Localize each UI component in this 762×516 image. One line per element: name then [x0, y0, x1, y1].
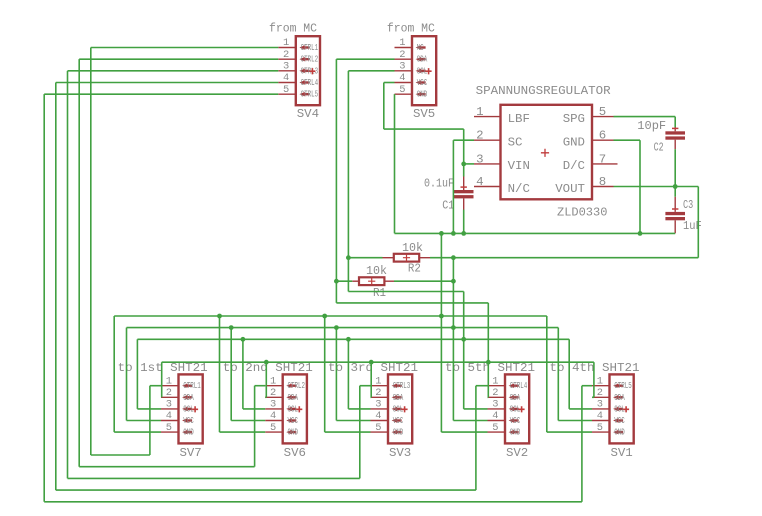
- svg-text:3: 3: [399, 61, 405, 73]
- wire CTRL5 bottom horizontal: [44, 501, 582, 503]
- svg-text:2: 2: [476, 129, 483, 143]
- svg-text:VCC: VCC: [510, 415, 521, 426]
- junction GND row drop: [439, 231, 444, 236]
- wire SCL drop to SV7: [136, 339, 138, 409]
- wire CTRL5 riser: [581, 386, 583, 502]
- wire VOUT drop: [452, 258, 454, 421]
- wire GND to SV6 pin 5: [220, 431, 266, 433]
- wire CTRL1 from SV4 pin 1: [91, 47, 278, 49]
- svg-text:GND: GND: [393, 427, 404, 438]
- svg-text:1: 1: [492, 375, 498, 387]
- svg-text:3: 3: [270, 399, 276, 411]
- connector SV6: [223, 361, 313, 460]
- svg-text:4: 4: [476, 175, 483, 189]
- junction VCC bus SV6: [229, 325, 234, 330]
- connector SV3: [328, 361, 418, 460]
- wire GND drop to SV6: [219, 316, 221, 432]
- junction VCC bus SV3: [334, 325, 339, 330]
- svg-text:GND: GND: [510, 427, 521, 438]
- svg-text:2: 2: [166, 387, 172, 399]
- wire SCL to SV6 pin 3: [243, 408, 265, 410]
- svg-text:2: 2: [597, 387, 603, 399]
- junction GND row pin 6: [638, 231, 643, 236]
- IC U1 ZLD0330 voltage regulator: [474, 84, 618, 220]
- svg-text:CTRL4: CTRL4: [510, 380, 528, 391]
- svg-text:CTRL2: CTRL2: [301, 54, 319, 65]
- wire VOUT row: [614, 186, 699, 188]
- connector SV4: [269, 22, 320, 121]
- wire GND row: [395, 232, 676, 234]
- wire R1 right to VOUT: [394, 280, 453, 282]
- svg-text:2: 2: [492, 387, 498, 399]
- svg-text:SDA: SDA: [393, 392, 404, 403]
- svg-text:SV1: SV1: [610, 446, 632, 460]
- wire SDA to SV1 pin 2: [592, 396, 594, 398]
- wire CTRL1 to pin 1: [150, 385, 161, 387]
- capacitor C1 0.1uF: [424, 177, 474, 213]
- wire SCL horizontal: [348, 291, 463, 293]
- wire CTRL3 from SV4 pin 3: [68, 70, 279, 72]
- wire CTRL5 left vertical: [43, 94, 45, 502]
- junction VOUT / C2 / C3: [673, 184, 678, 189]
- svg-text:5: 5: [597, 422, 603, 434]
- svg-text:2: 2: [270, 387, 276, 399]
- junction GND row C1: [461, 231, 466, 236]
- svg-text:CTRL1: CTRL1: [301, 42, 319, 53]
- svg-text:GND: GND: [288, 427, 299, 438]
- wire GND drop to SV3: [324, 316, 326, 432]
- junction GND row SC: [451, 231, 456, 236]
- wire C1 bottom to GND row: [463, 210, 465, 234]
- wire GND main drop: [440, 233, 442, 432]
- svg-text:CTRL4: CTRL4: [301, 77, 319, 88]
- svg-text:1: 1: [399, 37, 405, 49]
- wire CTRL5 from SV4 pin 5: [44, 93, 278, 95]
- svg-text:4: 4: [283, 72, 289, 84]
- wire SCL from SV5 pin 3: [348, 70, 394, 72]
- svg-text:GND: GND: [614, 427, 625, 438]
- svg-text:NC: NC: [417, 42, 424, 53]
- resistor R2 10k: [383, 241, 431, 276]
- svg-text:VCC: VCC: [183, 415, 194, 426]
- svg-text:SPANNUNGSREGULATOR: SPANNUNGSREGULATOR: [476, 84, 612, 98]
- wire SDA drop to SV1: [593, 362, 595, 397]
- svg-text:3: 3: [492, 399, 498, 411]
- junction SCL bus SV3: [346, 337, 351, 342]
- svg-text:VCC: VCC: [288, 415, 299, 426]
- wire CTRL2 from SV4 pin 2: [79, 58, 278, 60]
- connector SV2: [445, 361, 535, 460]
- wire CTRL2 riser: [254, 386, 256, 467]
- wire SDA drop to SV3: [370, 362, 372, 397]
- svg-text:1: 1: [375, 375, 381, 387]
- wire CTRL3 left vertical: [67, 71, 69, 479]
- svg-text:1: 1: [283, 37, 289, 49]
- svg-text:R2: R2: [408, 262, 421, 276]
- wire SCL vertical: [347, 71, 349, 292]
- wire SC vertical: [452, 140, 454, 233]
- wire SCL to SV7 pin 3: [137, 408, 161, 410]
- wire VOUT to C3 top: [674, 187, 676, 197]
- wire CTRL3 to pin 1: [360, 385, 371, 387]
- junction SCL bus feed: [461, 337, 466, 342]
- junction VCC bus feed: [451, 325, 456, 330]
- wire CTRL2 bottom horizontal: [79, 466, 254, 468]
- wire C2 bottom to VOUT row: [674, 149, 676, 186]
- wire SCL drop to SV1: [568, 339, 570, 409]
- svg-text:4: 4: [270, 410, 276, 422]
- svg-text:10k: 10k: [366, 264, 387, 278]
- capacitor C2 10pF: [637, 119, 685, 155]
- svg-text:5: 5: [399, 84, 405, 96]
- wire VCC from SV5 pin 4: [384, 82, 395, 84]
- capacitor C3 1uF: [665, 197, 701, 234]
- svg-text:VOUT: VOUT: [555, 182, 585, 196]
- svg-text:SPG: SPG: [563, 112, 585, 126]
- wire SPG pin 5 to C2: [614, 116, 676, 118]
- wire CTRL5 to pin 1: [582, 385, 592, 387]
- wire VCC horizontal: [384, 128, 464, 130]
- wire SCL drop to SV6: [242, 339, 244, 409]
- svg-text:SV3: SV3: [389, 446, 411, 460]
- svg-text:SC: SC: [508, 136, 523, 150]
- svg-text:5: 5: [599, 105, 606, 119]
- wire CTRL4 from SV4 pin 4: [56, 82, 278, 84]
- wire SCL drop to SV3: [347, 339, 349, 409]
- junction SDA bus SV3: [369, 360, 374, 365]
- svg-text:3: 3: [283, 61, 289, 73]
- wire CTRL2 left vertical: [78, 59, 80, 467]
- svg-text:4: 4: [399, 72, 405, 84]
- svg-text:1: 1: [166, 375, 172, 387]
- svg-text:4: 4: [597, 410, 603, 422]
- junction GND bus SV6: [217, 314, 222, 319]
- svg-text:CTRL2: CTRL2: [288, 380, 306, 391]
- svg-text:2: 2: [283, 49, 289, 61]
- wire SCL to R2 left: [348, 257, 382, 259]
- svg-text:SDA: SDA: [183, 392, 194, 403]
- wire GND from SV5 pin 5 vertical: [394, 94, 396, 233]
- svg-text:LBF: LBF: [508, 112, 530, 126]
- wire VCC to SV2 pin 4: [453, 420, 487, 422]
- wire VCC drop to SV7: [126, 328, 128, 421]
- wire VCC bus: [127, 327, 559, 329]
- svg-text:VCC: VCC: [393, 415, 404, 426]
- svg-text:SV2: SV2: [506, 446, 528, 460]
- svg-text:SV5: SV5: [413, 107, 435, 121]
- wire SDA drop to SV6: [265, 362, 267, 397]
- svg-text:7: 7: [599, 152, 606, 166]
- wire GND to SV3 pin 5: [325, 431, 371, 433]
- wire VCC down to VIN row: [463, 129, 465, 164]
- junction VOUT / R2: [451, 255, 456, 260]
- svg-text:2: 2: [375, 387, 381, 399]
- svg-text:from MC: from MC: [269, 22, 317, 36]
- wire SCL drop to bus: [463, 292, 465, 409]
- svg-text:SDA: SDA: [417, 54, 428, 65]
- junction SCL / R2: [346, 255, 351, 260]
- svg-text:3: 3: [476, 152, 483, 166]
- wire GND drop to SV1: [546, 316, 548, 432]
- svg-text:SDA: SDA: [510, 392, 521, 403]
- svg-text:1: 1: [597, 375, 603, 387]
- svg-text:4: 4: [375, 410, 381, 422]
- svg-text:10pF: 10pF: [637, 119, 666, 133]
- svg-text:GND: GND: [563, 136, 585, 150]
- svg-text:1: 1: [476, 105, 483, 119]
- svg-text:5: 5: [166, 422, 172, 434]
- svg-text:5: 5: [283, 84, 289, 96]
- svg-text:from MC: from MC: [387, 22, 435, 36]
- resistor R1 10k: [352, 264, 394, 300]
- svg-text:C2: C2: [654, 141, 664, 155]
- wire CTRL4 bottom horizontal: [56, 489, 476, 491]
- wire CTRL1 riser: [149, 386, 151, 455]
- svg-text:4: 4: [166, 410, 172, 422]
- wire VCC to SV7 pin 4: [127, 420, 162, 422]
- svg-text:0.1uF: 0.1uF: [424, 177, 454, 191]
- wire CTRL3 bottom horizontal: [68, 477, 360, 479]
- connector SV5: [387, 22, 436, 121]
- wire SDA to SV6 pin 2: [265, 396, 266, 398]
- wire VCC to SV3 pin 4: [336, 420, 370, 422]
- svg-text:3: 3: [597, 399, 603, 411]
- wire VCC to VIN pin 3: [464, 163, 474, 165]
- wire SDA drop to SV2: [487, 303, 489, 397]
- wire CTRL4 to pin 1: [476, 385, 488, 387]
- svg-text:5: 5: [492, 422, 498, 434]
- wire SCL bus: [137, 338, 569, 340]
- svg-text:4: 4: [492, 410, 498, 422]
- wire CTRL2 to pin 1: [255, 385, 266, 387]
- svg-text:R1: R1: [373, 286, 386, 300]
- svg-text:VCC: VCC: [614, 415, 625, 426]
- wire CTRL4 left vertical: [55, 83, 57, 491]
- svg-text:1: 1: [270, 375, 276, 387]
- wire SDA to SV2 pin 2: [487, 396, 490, 398]
- svg-text:SV4: SV4: [297, 107, 319, 121]
- wire SDA vertical: [335, 59, 337, 303]
- svg-text:3: 3: [166, 399, 172, 411]
- svg-text:CTRL1: CTRL1: [183, 380, 201, 391]
- svg-text:VIN: VIN: [508, 159, 530, 173]
- wire GND to SV7 pin 5: [114, 431, 161, 433]
- svg-text:SV6: SV6: [284, 446, 306, 460]
- junction SDA / R1: [334, 279, 339, 284]
- junction SDA bus SV2: [486, 360, 491, 365]
- wire CTRL4 riser: [475, 386, 477, 490]
- wire SDA to SV3 pin 2: [370, 396, 373, 398]
- wire CTRL1 bottom horizontal: [91, 454, 150, 456]
- wire SCL to SV3 pin 3: [348, 408, 370, 410]
- svg-text:D/C: D/C: [563, 159, 585, 173]
- svg-text:10k: 10k: [402, 241, 423, 255]
- wire SDA from SV5 pin 2: [336, 58, 394, 60]
- wire VCC drop to SV3: [335, 328, 337, 421]
- wire C2 top lead wire: [674, 117, 676, 128]
- wire SCL to SV1 pin 3: [569, 408, 592, 410]
- wire GND pin 6 vertical: [639, 140, 641, 233]
- svg-text:5: 5: [375, 422, 381, 434]
- wire SDA bus upper: [336, 302, 488, 304]
- connector SV7: [118, 361, 208, 460]
- wire SDA drop to SV7: [161, 362, 163, 397]
- wire CTRL1 left vertical: [90, 48, 92, 456]
- wire VCC to SV1 pin 4: [558, 420, 592, 422]
- svg-text:C1: C1: [442, 198, 454, 212]
- junction VOUT / R1: [451, 279, 456, 284]
- wire CTRL3 riser: [359, 386, 361, 479]
- junction GND bus SV3: [322, 314, 327, 319]
- svg-text:5: 5: [270, 422, 276, 434]
- svg-text:GND: GND: [183, 427, 194, 438]
- svg-text:SDA: SDA: [288, 392, 299, 403]
- svg-text:SDA: SDA: [614, 392, 625, 403]
- svg-text:8: 8: [599, 175, 606, 189]
- svg-text:C3: C3: [683, 198, 693, 212]
- wire VCC vertical: [383, 83, 385, 130]
- svg-text:CTRL5: CTRL5: [301, 89, 319, 100]
- svg-text:VCC: VCC: [417, 77, 428, 88]
- wire GND bus: [114, 315, 547, 317]
- wire VIN to C1 top: [463, 164, 465, 177]
- wire VOUT right vertical: [697, 187, 699, 258]
- wire VCC drop to SV1: [557, 328, 559, 421]
- junction SCL bus SV6: [241, 337, 246, 342]
- wire GND from pin 6: [614, 139, 641, 141]
- wire GND to SV2 pin 5: [441, 431, 487, 433]
- wire VOUT to R2 row: [430, 257, 698, 259]
- wire GND drop to SV7: [113, 316, 115, 432]
- wire SCL to SV2 pin 3: [464, 408, 488, 410]
- wire SDA bus lower: [162, 361, 594, 363]
- svg-text:ZLD0330: ZLD0330: [557, 206, 607, 220]
- svg-text:6: 6: [599, 129, 606, 143]
- wire VCC drop to SV6: [230, 328, 232, 421]
- junction VIN / C1: [461, 162, 466, 167]
- wire GND to SV1 pin 5: [547, 431, 592, 433]
- svg-text:SV7: SV7: [179, 446, 201, 460]
- svg-text:2: 2: [399, 49, 405, 61]
- svg-text:CTRL3: CTRL3: [393, 380, 411, 391]
- svg-text:CTRL5: CTRL5: [614, 380, 632, 391]
- wire GND to SC pin 2: [453, 139, 474, 141]
- svg-text:3: 3: [375, 399, 381, 411]
- junction SDA bus SV6: [264, 360, 269, 365]
- wire VCC to SV6 pin 4: [231, 420, 265, 422]
- junction GND bus feed: [439, 314, 444, 319]
- svg-text:GND: GND: [417, 89, 428, 100]
- wire SDA to R1 left: [336, 280, 352, 282]
- connector SV1: [550, 361, 640, 460]
- svg-text:N/C: N/C: [508, 182, 530, 196]
